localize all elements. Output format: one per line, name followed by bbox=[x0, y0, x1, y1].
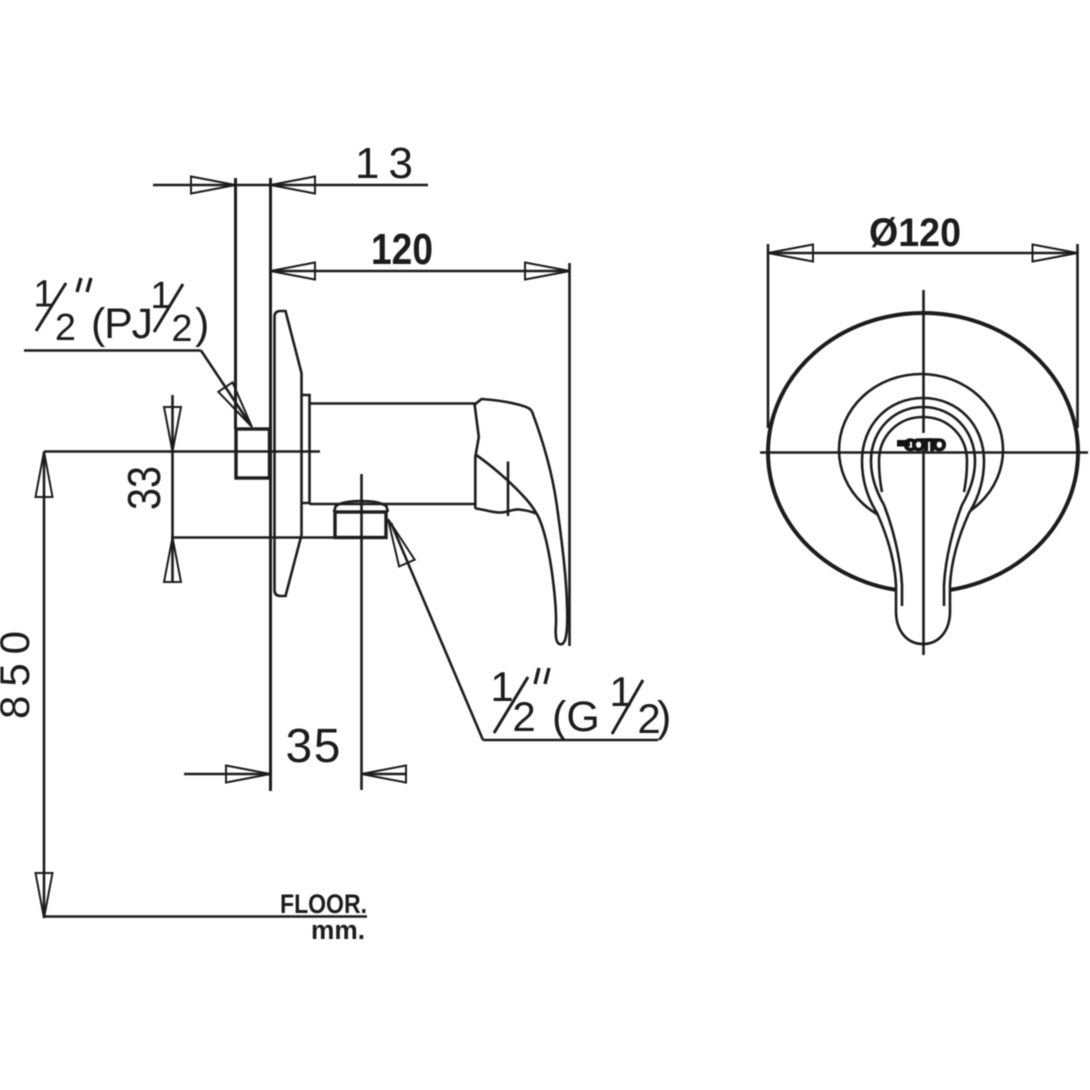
label G slashes and quote bbox=[494, 677, 528, 733]
svg-text:Ø120: Ø120 bbox=[869, 211, 961, 255]
leader G arrowhead bbox=[388, 519, 415, 567]
front view handle opening arc bbox=[879, 417, 967, 492]
inlet centerline y=452 bbox=[44, 450, 320, 453]
dimension 120 line bbox=[271, 270, 571, 273]
plate collar bbox=[302, 395, 310, 503]
svg-text:1: 1 bbox=[33, 274, 54, 316]
G outlet square bbox=[335, 512, 386, 538]
handle top edge bbox=[475, 399, 532, 412]
floor line bbox=[44, 915, 367, 918]
dimension 850 arrow bottom bbox=[36, 873, 53, 918]
dimension 13 arrow right bbox=[271, 177, 316, 194]
label PJ fraction 1 bbox=[33, 274, 209, 351]
dimension 850 line bbox=[43, 452, 46, 919]
dimension 120 extension line bbox=[568, 263, 571, 646]
svg-text:): ) bbox=[195, 300, 209, 348]
dimension 35 extension (outlet centerline) bbox=[360, 474, 363, 790]
front view vertical centerline upper bbox=[922, 290, 925, 433]
dimension 33 arrow bottom bbox=[164, 538, 181, 583]
svg-text:2: 2 bbox=[55, 307, 76, 349]
dimension D120 extension left bbox=[767, 244, 770, 428]
wall line x=270.5 bbox=[269, 178, 272, 791]
svg-text:2: 2 bbox=[171, 308, 192, 350]
dimension 13 arrow left bbox=[191, 177, 236, 194]
svg-text:35: 35 bbox=[286, 720, 341, 773]
dimension 13 line bbox=[153, 184, 428, 187]
leader G line bbox=[391, 523, 483, 740]
leader G underline bbox=[483, 739, 658, 742]
svg-text:): ) bbox=[657, 693, 671, 741]
label PJ fraction slashes and quote bbox=[36, 283, 66, 331]
svg-text:COTTO: COTTO bbox=[904, 436, 946, 455]
dimension 33 line bbox=[171, 395, 174, 583]
label G fraction bbox=[490, 663, 671, 742]
front view horizontal centerline bbox=[760, 451, 1088, 454]
dimension 120 arrow left bbox=[271, 263, 316, 280]
dimension 120 arrow right bbox=[525, 263, 570, 280]
PJ union square bbox=[236, 429, 270, 478]
leader PJ underline bbox=[24, 349, 201, 352]
front view handle inner rim left bbox=[884, 505, 902, 606]
svg-text:(G: (G bbox=[552, 693, 600, 741]
svg-text:33: 33 bbox=[118, 466, 170, 510]
escutcheon plate side profile bbox=[275, 311, 302, 596]
outlet reference line y=537.5 bbox=[171, 536, 386, 539]
svg-text:1: 1 bbox=[609, 668, 632, 715]
svg-text:13: 13 bbox=[355, 139, 413, 188]
outlet cap bbox=[334, 501, 388, 512]
dimension 35 arrow left bbox=[226, 766, 271, 783]
handle pivot tick bbox=[507, 462, 510, 517]
dimension D120 arrow right bbox=[1033, 245, 1078, 262]
valve body bottom bbox=[310, 503, 477, 506]
svg-text:850: 850 bbox=[0, 631, 38, 719]
handle bottom wavy edge bbox=[475, 509, 536, 514]
front view vertical centerline lower bbox=[922, 450, 925, 655]
handle inner hub curve bbox=[476, 455, 537, 514]
svg-text:(PJ: (PJ bbox=[91, 300, 153, 348]
svg-text:120: 120 bbox=[371, 225, 433, 274]
dimension 850 arrow top bbox=[36, 452, 53, 498]
dimension D120 extension right bbox=[1076, 244, 1079, 428]
front view outer escutcheon ellipse bbox=[768, 313, 1078, 592]
front view handle outer keyhole bbox=[862, 398, 984, 644]
svg-text:2: 2 bbox=[512, 693, 535, 740]
dimension D120 line bbox=[768, 252, 1078, 255]
dimension D120 arrow left bbox=[768, 245, 813, 262]
svg-text:mm.: mm. bbox=[311, 915, 365, 945]
front view handle inner rim bbox=[871, 407, 975, 606]
extension line x=236 (back of PJ union) bbox=[234, 178, 237, 429]
logo COTTO bbox=[897, 436, 946, 455]
handle outer back curve with hook bbox=[532, 412, 567, 645]
front view dome ellipse bbox=[839, 374, 1003, 526]
handle hub left edge bbox=[475, 404, 479, 509]
dimension 35 arrow right bbox=[362, 766, 407, 783]
svg-text:1: 1 bbox=[490, 663, 513, 710]
leader PJ arrowhead bbox=[218, 382, 252, 427]
dimension 33 arrow top bbox=[164, 407, 181, 452]
valve body top bbox=[310, 402, 477, 405]
dimension 35 line bbox=[184, 773, 271, 776]
leader PJ line bbox=[201, 351, 250, 425]
